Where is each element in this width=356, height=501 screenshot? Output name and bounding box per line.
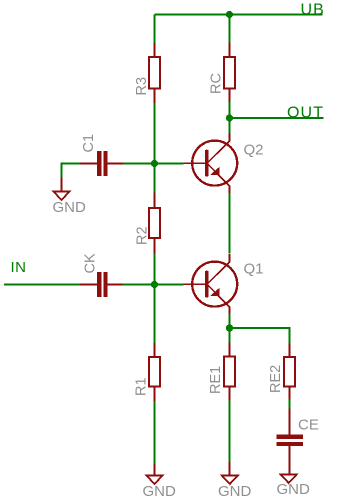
junction node UB xyxy=(226,11,233,18)
resistor R2 xyxy=(149,193,160,254)
ground symbol under RE1 xyxy=(222,462,238,484)
wire C1 right to node B2 xyxy=(123,163,184,165)
wire R1 bottom to ground xyxy=(154,401,156,463)
junction node OUT xyxy=(226,114,233,121)
ground symbol left (C1) xyxy=(54,178,70,201)
junction node B2 xyxy=(151,160,158,167)
resistor R1 xyxy=(149,343,160,401)
wire R3 top drop xyxy=(154,15,156,44)
capacitor CK xyxy=(80,272,123,297)
wire R3 bottom to node B2 xyxy=(154,103,156,193)
resistor RE2 xyxy=(284,344,295,400)
ground symbol under CE xyxy=(281,462,297,484)
wire RC bottom to OUT node xyxy=(229,102,231,133)
svg-text:Q1: Q1 xyxy=(244,261,264,278)
svg-text:CE: CE xyxy=(298,417,319,434)
svg-text:R1: R1 xyxy=(133,377,149,396)
junction node B1 xyxy=(151,281,158,288)
svg-text:Q2: Q2 xyxy=(244,142,264,159)
svg-text:CK: CK xyxy=(82,253,98,273)
svg-text:RE1: RE1 xyxy=(208,366,224,394)
capacitor CE xyxy=(277,409,303,462)
wire RC top drop xyxy=(229,15,231,43)
capacitor C1 xyxy=(80,151,123,176)
wire UB top rail xyxy=(155,14,323,16)
wire CK right to node B1 xyxy=(123,284,184,286)
wire node E to RE2 xyxy=(230,328,290,344)
svg-text:OUT: OUT xyxy=(287,104,324,121)
resistor RC xyxy=(224,43,235,103)
svg-text:RE2: RE2 xyxy=(268,365,284,393)
svg-text:GND: GND xyxy=(143,483,177,500)
svg-text:R3: R3 xyxy=(134,77,150,96)
resistor R3 xyxy=(149,43,160,103)
wire RE2 bottom to CE xyxy=(289,400,291,409)
junction node E xyxy=(226,324,233,331)
svg-text:GND: GND xyxy=(53,199,87,216)
svg-text:GND: GND xyxy=(277,481,311,498)
transistor Q1 xyxy=(184,254,238,314)
svg-text:UB: UB xyxy=(301,1,325,18)
wire IN to CK xyxy=(4,284,80,286)
ground symbol under R1 xyxy=(147,463,163,484)
svg-text:R2: R2 xyxy=(134,226,150,245)
resistor RE1 xyxy=(224,343,235,401)
wire C1 left to ground corner xyxy=(62,164,81,178)
svg-text:IN: IN xyxy=(11,259,27,276)
wire RE1 bottom to ground xyxy=(229,401,231,463)
wire Q1 emitter to node E xyxy=(229,314,231,343)
transistor Q2 xyxy=(184,133,238,193)
wire OUT stub xyxy=(230,117,324,119)
wire Q2 emitter to Q1 collector xyxy=(229,193,231,254)
svg-text:GND: GND xyxy=(218,483,252,500)
svg-text:C1: C1 xyxy=(81,134,97,153)
svg-text:RC: RC xyxy=(208,73,224,94)
wire R2 bottom to node B1 xyxy=(154,254,156,344)
